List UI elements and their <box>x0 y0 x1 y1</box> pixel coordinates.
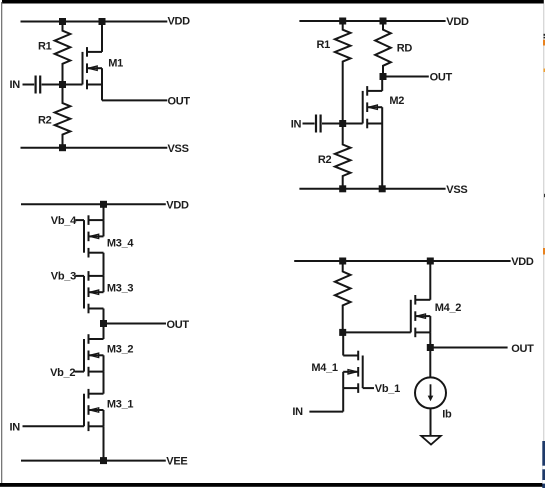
svg-text:M2: M2 <box>389 95 404 107</box>
svg-text:Vb_2: Vb_2 <box>50 367 75 379</box>
svg-text:M1: M1 <box>108 57 123 69</box>
svg-text:VEE: VEE <box>166 456 187 468</box>
svg-text:M3_1: M3_1 <box>107 398 133 410</box>
svg-text:OUT: OUT <box>168 95 191 107</box>
svg-text:IN: IN <box>10 79 21 91</box>
svg-text:Vb_1: Vb_1 <box>375 383 400 395</box>
svg-text:VSS: VSS <box>446 184 467 196</box>
svg-text:R2: R2 <box>38 114 52 126</box>
svg-text:VSS: VSS <box>168 143 189 155</box>
svg-text:R1: R1 <box>317 39 331 51</box>
svg-text:M4_2: M4_2 <box>435 302 461 314</box>
svg-text:IN: IN <box>10 422 21 434</box>
svg-text:IN: IN <box>291 119 302 131</box>
svg-text:VDD: VDD <box>446 16 469 28</box>
svg-text:M3_4: M3_4 <box>107 238 134 250</box>
svg-text:VDD: VDD <box>168 16 191 28</box>
svg-text:IN: IN <box>292 406 303 418</box>
svg-text:R2: R2 <box>318 154 332 166</box>
svg-text:R1: R1 <box>38 40 52 52</box>
svg-text:M3_3: M3_3 <box>107 282 133 294</box>
svg-text:M4_1: M4_1 <box>311 362 337 374</box>
svg-text:OUT: OUT <box>511 343 534 355</box>
svg-text:Ib: Ib <box>442 409 452 421</box>
svg-text:RD: RD <box>397 42 413 54</box>
svg-text:VDD: VDD <box>511 256 534 268</box>
svg-text:M3_2: M3_2 <box>107 343 133 355</box>
svg-text:Vb_3: Vb_3 <box>51 271 76 283</box>
svg-text:OUT: OUT <box>167 319 190 331</box>
svg-text:OUT: OUT <box>430 71 453 83</box>
svg-text:Vb_4: Vb_4 <box>51 215 77 227</box>
svg-text:VDD: VDD <box>166 199 189 211</box>
